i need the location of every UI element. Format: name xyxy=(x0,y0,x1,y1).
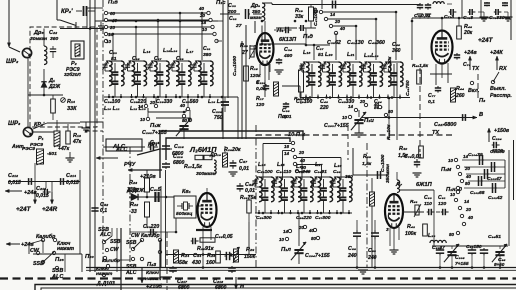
wire B line xyxy=(370,117,477,119)
svg-text:П₃: П₃ xyxy=(479,98,485,104)
wire П1ж risers xyxy=(145,97,147,104)
svg-text:С₅₄: С₅₄ xyxy=(193,253,201,259)
svg-text:С₆₀110: С₆₀110 xyxy=(276,169,291,175)
capacitor C218b xyxy=(231,266,233,268)
svg-text:П₂з: П₂з xyxy=(147,262,156,268)
wire x249 drop xyxy=(248,222,250,254)
svg-text:С₇₇: С₇₇ xyxy=(428,93,436,99)
wire vertical pair A xyxy=(89,0,91,272)
svg-text:80: 80 xyxy=(465,181,471,186)
svg-text:R₁₅: R₁₅ xyxy=(250,66,258,72)
svg-text:С₂₄100: С₂₄100 xyxy=(104,99,120,105)
svg-text:10: 10 xyxy=(450,192,456,197)
switch П1л contacts xyxy=(288,229,291,232)
svg-text:+24Т: +24Т xyxy=(16,206,32,213)
capacitor C215 xyxy=(165,144,167,146)
svg-text:120к: 120к xyxy=(250,73,261,79)
svg-text:L₁₀ L₁₁: L₁₀ L₁₁ xyxy=(104,106,120,112)
ground top small xyxy=(100,22,102,26)
svg-text:SSB: SSB xyxy=(33,261,44,267)
capacitor C79 xyxy=(416,159,418,162)
tuned circuit L12 L13 xyxy=(127,63,129,65)
capacitor C35 xyxy=(284,29,286,31)
svg-text:R₂₉: R₂₉ xyxy=(246,247,254,253)
svg-text:40: 40 xyxy=(467,215,474,220)
svg-text:R₂₂: R₂₂ xyxy=(130,202,138,208)
resistor R45 xyxy=(417,70,422,84)
svg-text:750: 750 xyxy=(214,115,223,121)
wire second chassis line xyxy=(86,269,516,271)
arrow Н xyxy=(235,277,237,289)
tuned circuit L22 xyxy=(383,64,385,66)
wire left feed xyxy=(60,28,103,30)
svg-text:14: 14 xyxy=(330,12,336,17)
svg-text:20: 20 xyxy=(465,207,472,212)
svg-text:0,1: 0,1 xyxy=(100,208,107,214)
resistor R27 pair xyxy=(195,155,203,159)
wire x462 top xyxy=(461,0,463,18)
wire ШР2-ШР3 link xyxy=(27,58,29,127)
svg-text:L₁₅L₁₆: L₁₅L₁₆ xyxy=(163,48,177,54)
svg-text:ШР₃: ШР₃ xyxy=(8,120,21,127)
relay РЭС9 box xyxy=(37,149,44,164)
module box dashed xyxy=(30,27,97,127)
capacitor C36 xyxy=(285,102,287,104)
tuned circuit L21 xyxy=(363,64,365,66)
variable capacitor C202 xyxy=(182,114,185,117)
wire drop L16 xyxy=(157,20,159,60)
svg-text:R₄₂: R₄₂ xyxy=(407,224,415,230)
svg-text:С₂₀₃7÷155: С₂₀₃7÷155 xyxy=(324,123,350,129)
svg-text:С₅₉300: С₅₉300 xyxy=(256,215,272,221)
resistor R19 xyxy=(309,7,314,21)
svg-text:С₅₇: С₅₇ xyxy=(239,159,248,165)
svg-text:С₆₈: С₆₈ xyxy=(348,246,356,252)
svg-text:С₃₄: С₃₄ xyxy=(284,47,292,53)
ground left alc xyxy=(82,127,91,129)
svg-text:С₂₁₃: С₂₁₃ xyxy=(36,186,46,192)
svg-text:П₁в: П₁в xyxy=(108,0,118,6)
svg-text:L₁₄: L₁₄ xyxy=(143,49,151,55)
svg-text:110: 110 xyxy=(424,201,432,207)
wire П1м rows xyxy=(462,159,505,161)
svg-text:350мкгн: 350мкгн xyxy=(385,164,390,183)
svg-text:CW: CW xyxy=(131,233,141,239)
coil L24t xyxy=(433,2,444,4)
diode Д2Ж xyxy=(131,194,138,200)
svg-text:33К: 33К xyxy=(67,106,77,112)
wire h3 y164 xyxy=(297,164,322,166)
switch П1в axis (dash-dot) xyxy=(102,0,104,262)
svg-text:430: 430 xyxy=(191,260,201,266)
svg-text:С₃₃: С₃₃ xyxy=(228,3,236,9)
svg-text:0,015: 0,015 xyxy=(66,180,79,186)
svg-text:0,015: 0,015 xyxy=(8,180,21,186)
wire y45 к bank2 xyxy=(305,44,308,47)
wire mid verticals xyxy=(129,147,131,267)
wire П2а stem xyxy=(111,228,113,236)
variable capacitor C205 xyxy=(447,251,456,253)
capacitor C104 xyxy=(479,159,481,161)
capacitor C80 xyxy=(427,211,429,213)
label +24K right xyxy=(496,56,498,70)
svg-text:R₂₇1,5к: R₂₇1,5к xyxy=(184,164,202,170)
svg-text:Д2Ж: Д2Ж xyxy=(48,84,61,90)
svg-text:+150в: +150в xyxy=(494,128,510,134)
capacitor C51 xyxy=(153,196,155,198)
svg-text:20: 20 xyxy=(199,13,206,18)
wire drop2 e xyxy=(313,45,315,60)
connector ШР2 xyxy=(22,48,31,57)
wire bank1 bottom bus xyxy=(104,96,238,98)
svg-text:220: 220 xyxy=(319,105,329,111)
svg-text:С₄₆750: С₄₆750 xyxy=(405,80,411,96)
wire П1с out xyxy=(217,40,223,42)
tuned circuit L18 L19 xyxy=(193,63,195,65)
svg-text:С₆₆: С₆₆ xyxy=(333,169,340,175)
switch П3 contacts xyxy=(470,81,473,84)
switch П1ж contacts xyxy=(144,104,147,107)
ground C76 xyxy=(504,11,508,13)
svg-text:R₂₄: R₂₄ xyxy=(181,253,189,259)
switch П1д contacts xyxy=(319,10,322,13)
svg-text:51: 51 xyxy=(111,56,117,62)
wire x52 xyxy=(51,182,53,193)
capacitor C214 xyxy=(58,181,61,183)
svg-text:L₂₄: L₂₄ xyxy=(258,162,266,168)
capacitor C72 xyxy=(427,3,429,5)
svg-text:R₁₇: R₁₇ xyxy=(256,96,264,102)
wire drop L14 xyxy=(112,34,114,60)
wire vertical x246 xyxy=(245,25,247,139)
tube Л6 xyxy=(432,31,453,64)
label +150v xyxy=(488,128,490,142)
wire tube3 pins xyxy=(202,227,204,267)
wire T1 grid stub xyxy=(250,48,257,50)
variable capacitor C85 xyxy=(495,251,504,253)
switch П2ж contacts xyxy=(41,238,44,241)
ground C75 xyxy=(478,11,484,13)
svg-text:16: 16 xyxy=(284,144,290,149)
svg-text:200: 200 xyxy=(227,9,236,15)
svg-text:С₁₀₁42: С₁₀₁42 xyxy=(488,195,503,201)
svg-text:ALC: ALC xyxy=(99,232,111,238)
svg-text:+24в: +24в xyxy=(464,50,477,56)
svg-text:+210б: +210б xyxy=(146,283,162,290)
wire y122 stub xyxy=(80,121,103,123)
svg-text:нажат: нажат xyxy=(96,272,113,277)
capacitor edge b xyxy=(504,2,506,3)
svg-text:С₂₀₁1000: С₂₀₁1000 xyxy=(232,56,238,76)
capacitor C35b xyxy=(299,27,301,29)
wire tube1 pins xyxy=(259,64,261,75)
svg-text:нажат: нажат xyxy=(145,277,162,282)
relay Р2 РЭС9 xyxy=(71,41,84,59)
capacitor C58b xyxy=(239,183,241,186)
svg-text:С₂₀₅: С₂₀₅ xyxy=(455,255,465,261)
svg-text:20: 20 xyxy=(298,150,305,155)
svg-text:КР₂′: КР₂′ xyxy=(61,8,73,15)
capacitor C84 xyxy=(483,248,485,250)
svg-text:6800: 6800 xyxy=(178,285,189,290)
wire tube1 top xyxy=(264,21,266,33)
svg-text:С₂₉: С₂₉ xyxy=(176,56,184,62)
svg-text:100к: 100к xyxy=(405,231,416,237)
wire drop L15 xyxy=(135,27,137,60)
chassis bus line xyxy=(86,267,516,269)
wire cw run xyxy=(42,240,44,253)
svg-text:+47к: +47к xyxy=(58,146,70,152)
resistor R44 xyxy=(451,88,456,102)
svg-text:ШР₂: ШР₂ xyxy=(6,58,19,65)
svg-text:+210в: +210в xyxy=(140,174,156,180)
tuned circuit L24 xyxy=(254,179,256,181)
capacitor C218 xyxy=(165,162,167,164)
capacitor C75 xyxy=(468,11,470,13)
tube Л7 xyxy=(385,194,403,228)
diode Д1 Д2К xyxy=(43,78,45,95)
svg-text:360: 360 xyxy=(345,174,353,179)
capacitor C81 xyxy=(441,211,443,213)
svg-text:80: 80 xyxy=(449,232,455,237)
resistor R39 xyxy=(247,200,251,213)
quartz K81 box xyxy=(174,196,196,218)
wire П2а cross xyxy=(117,259,130,261)
svg-text:10: 10 xyxy=(279,237,285,242)
svg-text:L₂₇: L₂₇ xyxy=(315,162,323,168)
resistor R23 xyxy=(145,178,150,192)
svg-text:160: 160 xyxy=(206,260,215,266)
svg-text:ALC: ALC xyxy=(112,144,126,150)
variable resistor R43 xyxy=(415,205,419,215)
svg-text:П₁д: П₁д xyxy=(303,34,313,40)
svg-text:С₇₆330: С₇₆330 xyxy=(489,15,505,21)
wire anode top bus xyxy=(272,4,420,6)
svg-text:Р₁: Р₁ xyxy=(38,136,44,142)
svg-text:27: 27 xyxy=(241,50,249,56)
svg-text:П₂₀: П₂₀ xyxy=(85,254,94,260)
wire П1д stub xyxy=(321,0,323,9)
tuned circuit L28 xyxy=(332,179,334,181)
variable capacitor C203 xyxy=(358,110,360,117)
wire В line left tail xyxy=(362,117,370,119)
wire bank2 bottom bus xyxy=(300,97,410,99)
wire x509 column xyxy=(508,150,510,246)
capacitor edge a xyxy=(486,2,488,3)
module dashed segment xyxy=(256,134,452,136)
wire antenna feed xyxy=(8,0,10,47)
svg-text:R₄₄: R₄₄ xyxy=(456,86,464,92)
svg-text:В: В xyxy=(479,112,483,118)
capacitor C77 xyxy=(437,86,439,88)
svg-text:С₁₀₄39: С₁₀₄39 xyxy=(468,152,483,158)
wire x389 long xyxy=(388,98,390,140)
svg-text:С₂₂₇6800: С₂₂₇6800 xyxy=(434,122,456,128)
capacitor C101 xyxy=(492,187,494,189)
choke Др9 xyxy=(262,3,265,21)
svg-text:С₃₇: С₃₇ xyxy=(316,46,324,52)
capacitor C83 xyxy=(439,248,441,250)
svg-text:С₄₁130: С₄₁130 xyxy=(347,40,364,46)
wire y181 bus xyxy=(8,181,80,183)
wire h2 y12 xyxy=(323,11,396,13)
relay Р1 xyxy=(54,131,60,146)
wire right edge mid xyxy=(513,140,515,200)
svg-text:8÷50: 8÷50 xyxy=(494,262,505,267)
svg-text:С₆₇300: С₆₇300 xyxy=(315,215,331,221)
svg-text:С₂₂₆: С₂₂₆ xyxy=(256,80,266,86)
svg-text:С₃₁: С₃₁ xyxy=(203,46,211,52)
wire П1д feed xyxy=(306,44,330,46)
wire drop L18a xyxy=(201,13,203,60)
ground left module xyxy=(69,152,71,158)
wire Др9 top corner xyxy=(262,2,272,4)
resistor R24 xyxy=(174,250,179,263)
wire right edge top xyxy=(510,0,512,40)
capacitor C53 xyxy=(148,231,151,233)
svg-text:3: 3 xyxy=(386,227,389,232)
svg-text:С₁₀₃47: С₁₀₃47 xyxy=(487,176,502,182)
resistor R21 xyxy=(299,70,304,92)
svg-text:0,01: 0,01 xyxy=(239,166,249,172)
wire drop2 c xyxy=(375,19,377,60)
arrow +24v mid xyxy=(5,190,22,192)
svg-text:С₆₅220: С₆₅220 xyxy=(296,215,312,221)
svg-text:10: 10 xyxy=(140,117,146,122)
ground C71 C72 xyxy=(417,13,423,15)
svg-text:350: 350 xyxy=(252,9,260,15)
tuned circuit L20 xyxy=(342,64,344,66)
svg-text:40: 40 xyxy=(339,26,346,31)
capacitor C68 xyxy=(356,230,358,233)
svg-text:С₇₃3: С₇₃3 xyxy=(444,14,454,20)
svg-text:1,5к: 1,5к xyxy=(362,161,372,167)
svg-text:П₁л: П₁л xyxy=(281,247,291,253)
svg-text:300мкгн: 300мкгн xyxy=(196,171,216,177)
svg-text:С₃₆: С₃₆ xyxy=(282,108,290,114)
svg-text:0,1: 0,1 xyxy=(428,99,435,105)
svg-text:240: 240 xyxy=(347,253,357,259)
tube Л5 mixer xyxy=(198,193,217,227)
svg-text:L₂₂L₂₃: L₂₂L₂₃ xyxy=(364,53,379,59)
svg-text:L₂₁: L₂₁ xyxy=(347,52,354,58)
wire K81 to tube xyxy=(196,205,203,207)
svg-text:С₂₁₅: С₂₁₅ xyxy=(174,144,184,150)
connector ШР3 xyxy=(23,127,32,136)
svg-text:Расстр.: Расстр. xyxy=(490,93,512,99)
resistor R13 xyxy=(66,131,70,144)
capacitor C213 xyxy=(45,182,47,189)
wire c83 bus xyxy=(432,245,508,247)
switch П1с contacts xyxy=(207,11,210,14)
wire x306 xyxy=(305,28,307,45)
svg-text:120: 120 xyxy=(256,102,264,108)
wire vertical x228 xyxy=(227,0,229,98)
tuned circuit L10 L11 xyxy=(104,63,106,65)
wire С33 to Др9 run xyxy=(253,13,262,15)
variable resistor R18 xyxy=(250,46,254,57)
svg-text:33: 33 xyxy=(131,209,137,215)
svg-text:0,01: 0,01 xyxy=(282,114,292,120)
junction dots chassis xyxy=(202,266,205,269)
svg-text:С₂₁₂: С₂₁₂ xyxy=(8,173,18,179)
wire h y13 xyxy=(108,12,208,14)
svg-text:Л₃6И1П: Л₃6И1П xyxy=(189,145,217,154)
svg-text:П₁и: П₁и xyxy=(364,118,374,124)
slug coil xyxy=(274,82,279,96)
label +24v right xyxy=(469,56,471,70)
svg-text:Др₈: Др₈ xyxy=(33,30,44,36)
svg-text:+24R: +24R xyxy=(42,206,58,213)
svg-text:+24К: +24К xyxy=(490,50,503,56)
svg-text:С₂₁₄: С₂₁₄ xyxy=(66,173,76,179)
svg-text:С₁₀₅39: С₁₀₅39 xyxy=(490,149,505,155)
svg-text:7÷155: 7÷155 xyxy=(455,261,469,267)
svg-text:380: 380 xyxy=(203,52,211,58)
svg-text:Ключ: Ключ xyxy=(146,270,159,276)
choke Др8 xyxy=(43,29,45,47)
arrow +24R xyxy=(51,192,53,204)
wire x35 xyxy=(34,163,36,192)
svg-text:С₅₁5: С₅₁5 xyxy=(150,187,162,193)
svg-text:С₂₃: С₂₃ xyxy=(109,50,117,56)
svg-text:С₃₂: С₃₂ xyxy=(229,16,237,22)
wire П1ж nest b xyxy=(156,117,190,119)
svg-text:L₁₇: L₁₇ xyxy=(186,49,194,55)
variable capacitor C204 xyxy=(298,213,300,246)
resistor R15 xyxy=(244,66,249,81)
svg-text:С₂₈330: С₂₈330 xyxy=(156,99,172,105)
svg-text:6Ж1П: 6Ж1П xyxy=(416,182,433,188)
svg-text:Л₇: Л₇ xyxy=(395,182,403,188)
resistor R41v xyxy=(370,192,375,206)
capacitor C103 xyxy=(484,173,486,175)
svg-text:14: 14 xyxy=(284,151,290,156)
capacitor C22 xyxy=(52,46,54,49)
svg-text:L₂₀: L₂₀ xyxy=(325,52,333,58)
wire tube4 anode row xyxy=(399,189,434,191)
svg-text:20: 20 xyxy=(359,99,366,104)
capacitor C33b xyxy=(245,13,247,15)
svg-text:мкгн: мкгн xyxy=(250,16,262,21)
svg-text:33к: 33к xyxy=(295,14,304,20)
svg-text:R₂₆: R₂₆ xyxy=(207,253,216,259)
svg-text:CW: CW xyxy=(110,247,120,253)
tuned circuit L16 L17 xyxy=(171,63,173,65)
svg-text:С₅₈100: С₅₈100 xyxy=(257,169,273,175)
svg-text:0,01: 0,01 xyxy=(245,188,255,194)
switch П1к axis (dashed) xyxy=(419,68,421,152)
wire x434 xyxy=(433,190,435,246)
svg-text:14: 14 xyxy=(138,104,144,109)
svg-text:С₇₅3: С₇₅3 xyxy=(463,15,473,21)
divider dash x348 xyxy=(347,126,349,160)
svg-text:С₈₄51: С₈₄51 xyxy=(488,234,501,240)
wire x87 stub xyxy=(86,8,88,29)
wire K81 link xyxy=(175,218,177,232)
resistor R42 xyxy=(423,224,428,236)
wire h2 y26 xyxy=(333,25,356,27)
wire drop L17 xyxy=(179,13,181,60)
wire y232 xyxy=(130,231,176,233)
capacitor C216 xyxy=(148,146,151,148)
wire alc line xyxy=(103,146,145,148)
svg-text:П₁м: П₁м xyxy=(441,167,452,173)
wire T1 anode riser xyxy=(261,43,264,46)
wire h y20 xyxy=(108,19,210,21)
switch П3 axis (dashed) xyxy=(477,74,479,100)
svg-text:80: 80 xyxy=(311,236,317,241)
